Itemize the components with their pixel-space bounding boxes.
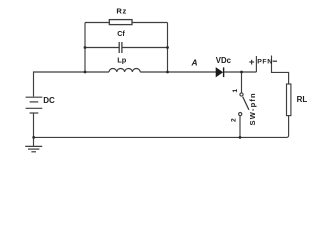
svg-text:RL: RL (297, 95, 308, 104)
svg-text:VDc: VDc (216, 56, 232, 65)
svg-text:Cf: Cf (117, 29, 125, 38)
svg-text:DC: DC (43, 96, 55, 105)
svg-text:Lp: Lp (117, 56, 127, 65)
svg-text:A: A (191, 58, 198, 68)
svg-text:SW-pfn: SW-pfn (248, 92, 257, 125)
svg-text:PFN: PFN (257, 59, 273, 66)
svg-text:2: 2 (231, 118, 238, 122)
svg-text:Rz: Rz (116, 7, 126, 16)
svg-text:+: + (249, 57, 255, 68)
svg-text:1: 1 (232, 89, 239, 93)
